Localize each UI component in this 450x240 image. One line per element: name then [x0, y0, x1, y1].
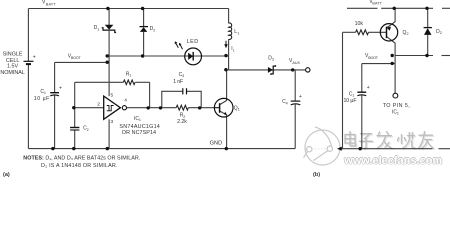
- wire pin2 row: [75, 107, 104, 109]
- svg-text:TO PIN 5,: TO PIN 5,: [383, 103, 411, 109]
- svg-text:AUX: AUX: [292, 61, 300, 65]
- svg-text:3: 3: [111, 119, 114, 125]
- inverter IC1 (schmitt trigger gate): [104, 96, 127, 119]
- wire pin3 column: [108, 119, 110, 148]
- battery B1 single cell: [24, 61, 34, 64]
- diode D1 schottky: [102, 25, 116, 33]
- svg-text:+: +: [299, 94, 302, 100]
- wire C4 column: [294, 70, 296, 101]
- svg-text:10k: 10k: [355, 21, 364, 27]
- wire Q2 collector: [387, 37, 396, 94]
- node terminal to pin 5: [393, 93, 398, 98]
- svg-text:+: +: [33, 54, 36, 60]
- wire VBATT rail b: [347, 7, 378, 9]
- node VAUX output terminal: [306, 68, 310, 72]
- capacitor C2: [70, 128, 79, 131]
- svg-text:BOOT: BOOT: [368, 56, 379, 60]
- resistor R3 10k: [356, 30, 369, 35]
- svg-text:1: 1: [238, 108, 240, 112]
- transistor Q1 npn: [214, 98, 233, 117]
- char dian: [345, 135, 355, 144]
- wire VBATT top rail: [28, 8, 228, 10]
- wire D2 column: [143, 9, 145, 27]
- svg-text:BATT: BATT: [46, 2, 57, 6]
- wire D3 row: [226, 69, 306, 71]
- wire left battery column: [27, 9, 29, 61]
- wire GND rail b: [341, 148, 433, 150]
- inductor L1: [229, 23, 232, 39]
- wire D1 column: [108, 9, 110, 26]
- wire Q2 emitter: [387, 8, 396, 28]
- svg-text:D₂ IS A 1N4148 OR SIMILAR.: D₂ IS A 1N4148 OR SIMILAR.: [41, 163, 118, 169]
- diode D2 b (points up): [424, 28, 432, 35]
- svg-text:+: +: [59, 86, 62, 92]
- transistor Q2 pnp: [380, 24, 397, 41]
- capacitor C4: [291, 101, 301, 105]
- wire VBOOT row b: [362, 63, 395, 65]
- wire feedback column left: [74, 82, 76, 107]
- LED with emission arrows: [175, 41, 202, 65]
- svg-text:(b): (b): [313, 172, 320, 177]
- svg-text:1: 1: [44, 91, 46, 95]
- resistor R1: [123, 80, 135, 85]
- svg-text:2: 2: [97, 102, 100, 108]
- wire VBOOT stub row: [55, 61, 110, 63]
- wire C2 column: [74, 108, 76, 128]
- svg-text:1: 1: [97, 27, 99, 31]
- svg-text:L: L: [233, 48, 235, 52]
- wire C1 column: [54, 62, 56, 92]
- wire base row: [343, 31, 356, 33]
- svg-text:2.2k: 2.2k: [177, 119, 187, 125]
- labels section a: [0, 0, 300, 178]
- wire output row: [127, 107, 177, 109]
- capacitor C1: [50, 93, 59, 96]
- char shao: [401, 135, 403, 144]
- svg-text:4: 4: [286, 101, 288, 105]
- svg-text:1: 1: [237, 31, 239, 35]
- wire L1 column top: [228, 9, 230, 24]
- capacitor C3: [183, 88, 187, 94]
- svg-text:3: 3: [182, 74, 184, 78]
- ground continuation arrow: [337, 147, 342, 151]
- wire C1 column b: [361, 64, 363, 92]
- svg-text:1: 1: [129, 74, 131, 78]
- char zi: [361, 133, 372, 135]
- svg-text:NOTES: D₁, AND D₃ ARE BAT42s O: NOTES: D₁, AND D₃ ARE BAT42s OR SIMILAR.: [23, 156, 140, 162]
- svg-text:www.elecfans.com: www.elecfans.com: [343, 155, 442, 167]
- wire feedback top row: [75, 81, 124, 83]
- node dots section a: [51, 7, 294, 151]
- svg-text:5: 5: [111, 92, 114, 98]
- labels section b: [313, 0, 442, 178]
- wire C3 branch: [162, 91, 183, 107]
- svg-text:1 nF: 1 nF: [173, 79, 183, 85]
- svg-text:2: 2: [407, 32, 409, 36]
- node dots section b: [359, 7, 429, 151]
- inductor current arrow IL: [225, 41, 227, 45]
- diode D2 (points up): [140, 27, 149, 32]
- svg-text:BOOT: BOOT: [71, 56, 82, 60]
- wire feedback right column: [149, 82, 151, 107]
- capacitor C1 b: [357, 92, 366, 96]
- wire D2 bottom row: [395, 55, 433, 57]
- char fa: [378, 132, 380, 136]
- wire L1 column bottom: [228, 39, 230, 70]
- watermark url text: [343, 154, 444, 167]
- svg-text:(a): (a): [3, 172, 10, 177]
- svg-text:GND: GND: [210, 140, 222, 146]
- diode D3 schottky: [268, 65, 276, 75]
- svg-text:2: 2: [153, 28, 155, 32]
- wire D2 column b: [427, 8, 429, 27]
- svg-text:SINGLE: SINGLE: [3, 52, 23, 58]
- svg-text:1: 1: [139, 118, 141, 122]
- watermark chinese characters: [345, 132, 433, 149]
- svg-text:10 µF: 10 µF: [344, 98, 357, 104]
- wire LED row: [109, 55, 229, 57]
- wire 10k column: [342, 32, 344, 148]
- svg-text:NOMINAL: NOMINAL: [0, 70, 25, 76]
- wire pin5 column: [108, 62, 110, 96]
- svg-text:OR NC7SP14: OR NC7SP14: [122, 130, 156, 136]
- svg-text:+: +: [367, 85, 370, 91]
- svg-text:2: 2: [440, 31, 442, 35]
- wire Q1 emitter: [220, 111, 227, 149]
- resistor R2: [176, 105, 188, 110]
- wire Q1 collector: [220, 70, 227, 105]
- svg-text:3: 3: [272, 58, 274, 62]
- svg-text:10 µF: 10 µF: [34, 96, 50, 102]
- svg-text:LED: LED: [187, 39, 199, 45]
- svg-text:1.5V: 1.5V: [7, 64, 18, 70]
- wire GND bottom rail: [28, 148, 295, 150]
- watermark logo (elecfans): [304, 127, 341, 165]
- watermark chinese characters shadow: [346, 133, 434, 150]
- svg-text:4: 4: [124, 97, 127, 103]
- svg-text:2: 2: [87, 128, 89, 132]
- svg-text:1: 1: [397, 112, 399, 116]
- char you: [419, 134, 433, 136]
- svg-text:BATT: BATT: [372, 2, 382, 6]
